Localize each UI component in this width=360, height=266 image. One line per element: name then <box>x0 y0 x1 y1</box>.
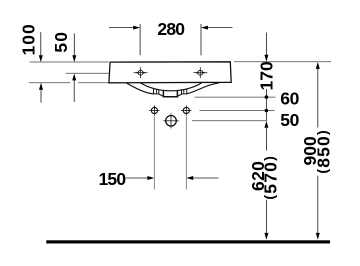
tap hole level line <box>66 72 109 74</box>
dim 150 extension line left <box>153 117 155 190</box>
dim 280 extension line right <box>200 24 202 55</box>
line B (fixing hole level) <box>200 110 275 112</box>
dim 50 down arrow <box>72 33 76 62</box>
dim 170 line with down arrow <box>264 33 268 62</box>
dim 280 extension line left <box>139 24 141 55</box>
dim 150 arrow left <box>126 176 154 180</box>
floor line <box>46 240 330 243</box>
svg-text:170: 170 <box>257 61 277 90</box>
dim 150 arrow right <box>186 176 218 180</box>
dim 100 up arrow <box>39 83 43 103</box>
wire <box>29 24 331 244</box>
basin outer wall left-to-cup <box>159 94 164 96</box>
dim 100 down arrow <box>39 32 43 62</box>
tap hole marker left <box>134 67 148 78</box>
svg-text:280: 280 <box>157 19 185 39</box>
washbasin rim (front view) <box>109 62 231 83</box>
dim 280 arrow left <box>109 26 140 30</box>
svg-text:50: 50 <box>51 31 71 53</box>
drain tab left <box>154 89 159 94</box>
dim 900 lower line and down arrow <box>316 176 320 240</box>
fixing hole right <box>181 105 191 115</box>
dim 620 up arrow <box>264 121 268 151</box>
node dot at line B <box>265 109 269 113</box>
dim 150 extension line right <box>185 117 187 190</box>
dim 900 up arrow <box>316 62 320 128</box>
svg-text:(850): (850) <box>314 129 334 174</box>
basin outer wall right <box>187 83 219 94</box>
svg-text:100: 100 <box>19 23 39 55</box>
basin outer wall cup-to-right-tab <box>177 94 181 96</box>
dim 50 up arrow <box>72 74 76 103</box>
svg-text:60: 60 <box>280 89 299 109</box>
datum line right (rim top level) <box>234 61 331 63</box>
basin outer wall left <box>126 83 153 94</box>
drain trap cup <box>163 90 177 96</box>
fixing hole left <box>149 105 159 115</box>
svg-text:50: 50 <box>280 110 299 130</box>
drain tab right <box>182 89 187 94</box>
chain line through dots <box>265 89 267 121</box>
datum line left (rim top level) <box>29 61 108 63</box>
basin inner bowl arc <box>141 83 202 91</box>
line A (basin underside level, to 60 label) <box>195 96 276 98</box>
line C (drain level, to 50 label) <box>192 120 266 122</box>
dim 620 lower line and down arrow <box>264 200 268 240</box>
svg-text:150: 150 <box>98 169 126 189</box>
drain hole <box>163 113 178 128</box>
tap hole marker right <box>193 67 207 78</box>
node dot at line A <box>265 95 269 99</box>
svg-text:(570): (570) <box>261 155 281 200</box>
rim bottom level line <box>29 82 70 84</box>
dim 280 arrow right <box>201 26 233 30</box>
